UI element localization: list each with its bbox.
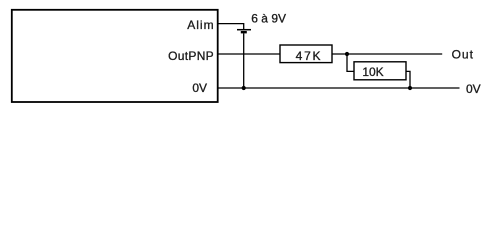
- wire R1 to Out terminal: [332, 53, 442, 55]
- svg-text:6 à 9V: 6 à 9V: [251, 12, 286, 26]
- svg-text:Alim: Alim: [187, 18, 214, 32]
- pin label 0V: [192, 81, 207, 95]
- value label 10K: [362, 65, 383, 79]
- pin label Alim: [187, 18, 214, 32]
- svg-text:0V: 0V: [192, 81, 207, 95]
- battery B1: [237, 30, 251, 33]
- svg-text:47K: 47K: [296, 49, 323, 63]
- wire Alim pin to battery: [218, 24, 244, 29]
- resistor R2 10K: [354, 62, 406, 80]
- junction battery-0V: [242, 86, 246, 90]
- svg-text:0V: 0V: [466, 82, 481, 96]
- svg-text:Out: Out: [452, 47, 474, 61]
- value label 47K: [296, 49, 323, 63]
- svg-text:OutPNP: OutPNP: [168, 49, 214, 63]
- wire OutPNP pin to resistor R1: [218, 53, 280, 55]
- wire battery negative to 0V rail: [243, 33, 245, 88]
- node junction R1-R2: [345, 52, 349, 56]
- module box U1: [12, 10, 218, 102]
- terminal label Out: [452, 47, 474, 61]
- wire junction down to resistor R2: [347, 54, 354, 71]
- pin label OutPNP: [168, 49, 214, 63]
- value label 6 à 9V: [251, 12, 286, 26]
- junction R2-0V: [408, 86, 412, 90]
- resistor R1 47K: [280, 45, 332, 63]
- wire R2 to 0V rail: [406, 71, 410, 88]
- wire 0V rail: [218, 87, 460, 89]
- terminal label 0V: [466, 82, 481, 96]
- svg-text:10K: 10K: [362, 65, 383, 79]
